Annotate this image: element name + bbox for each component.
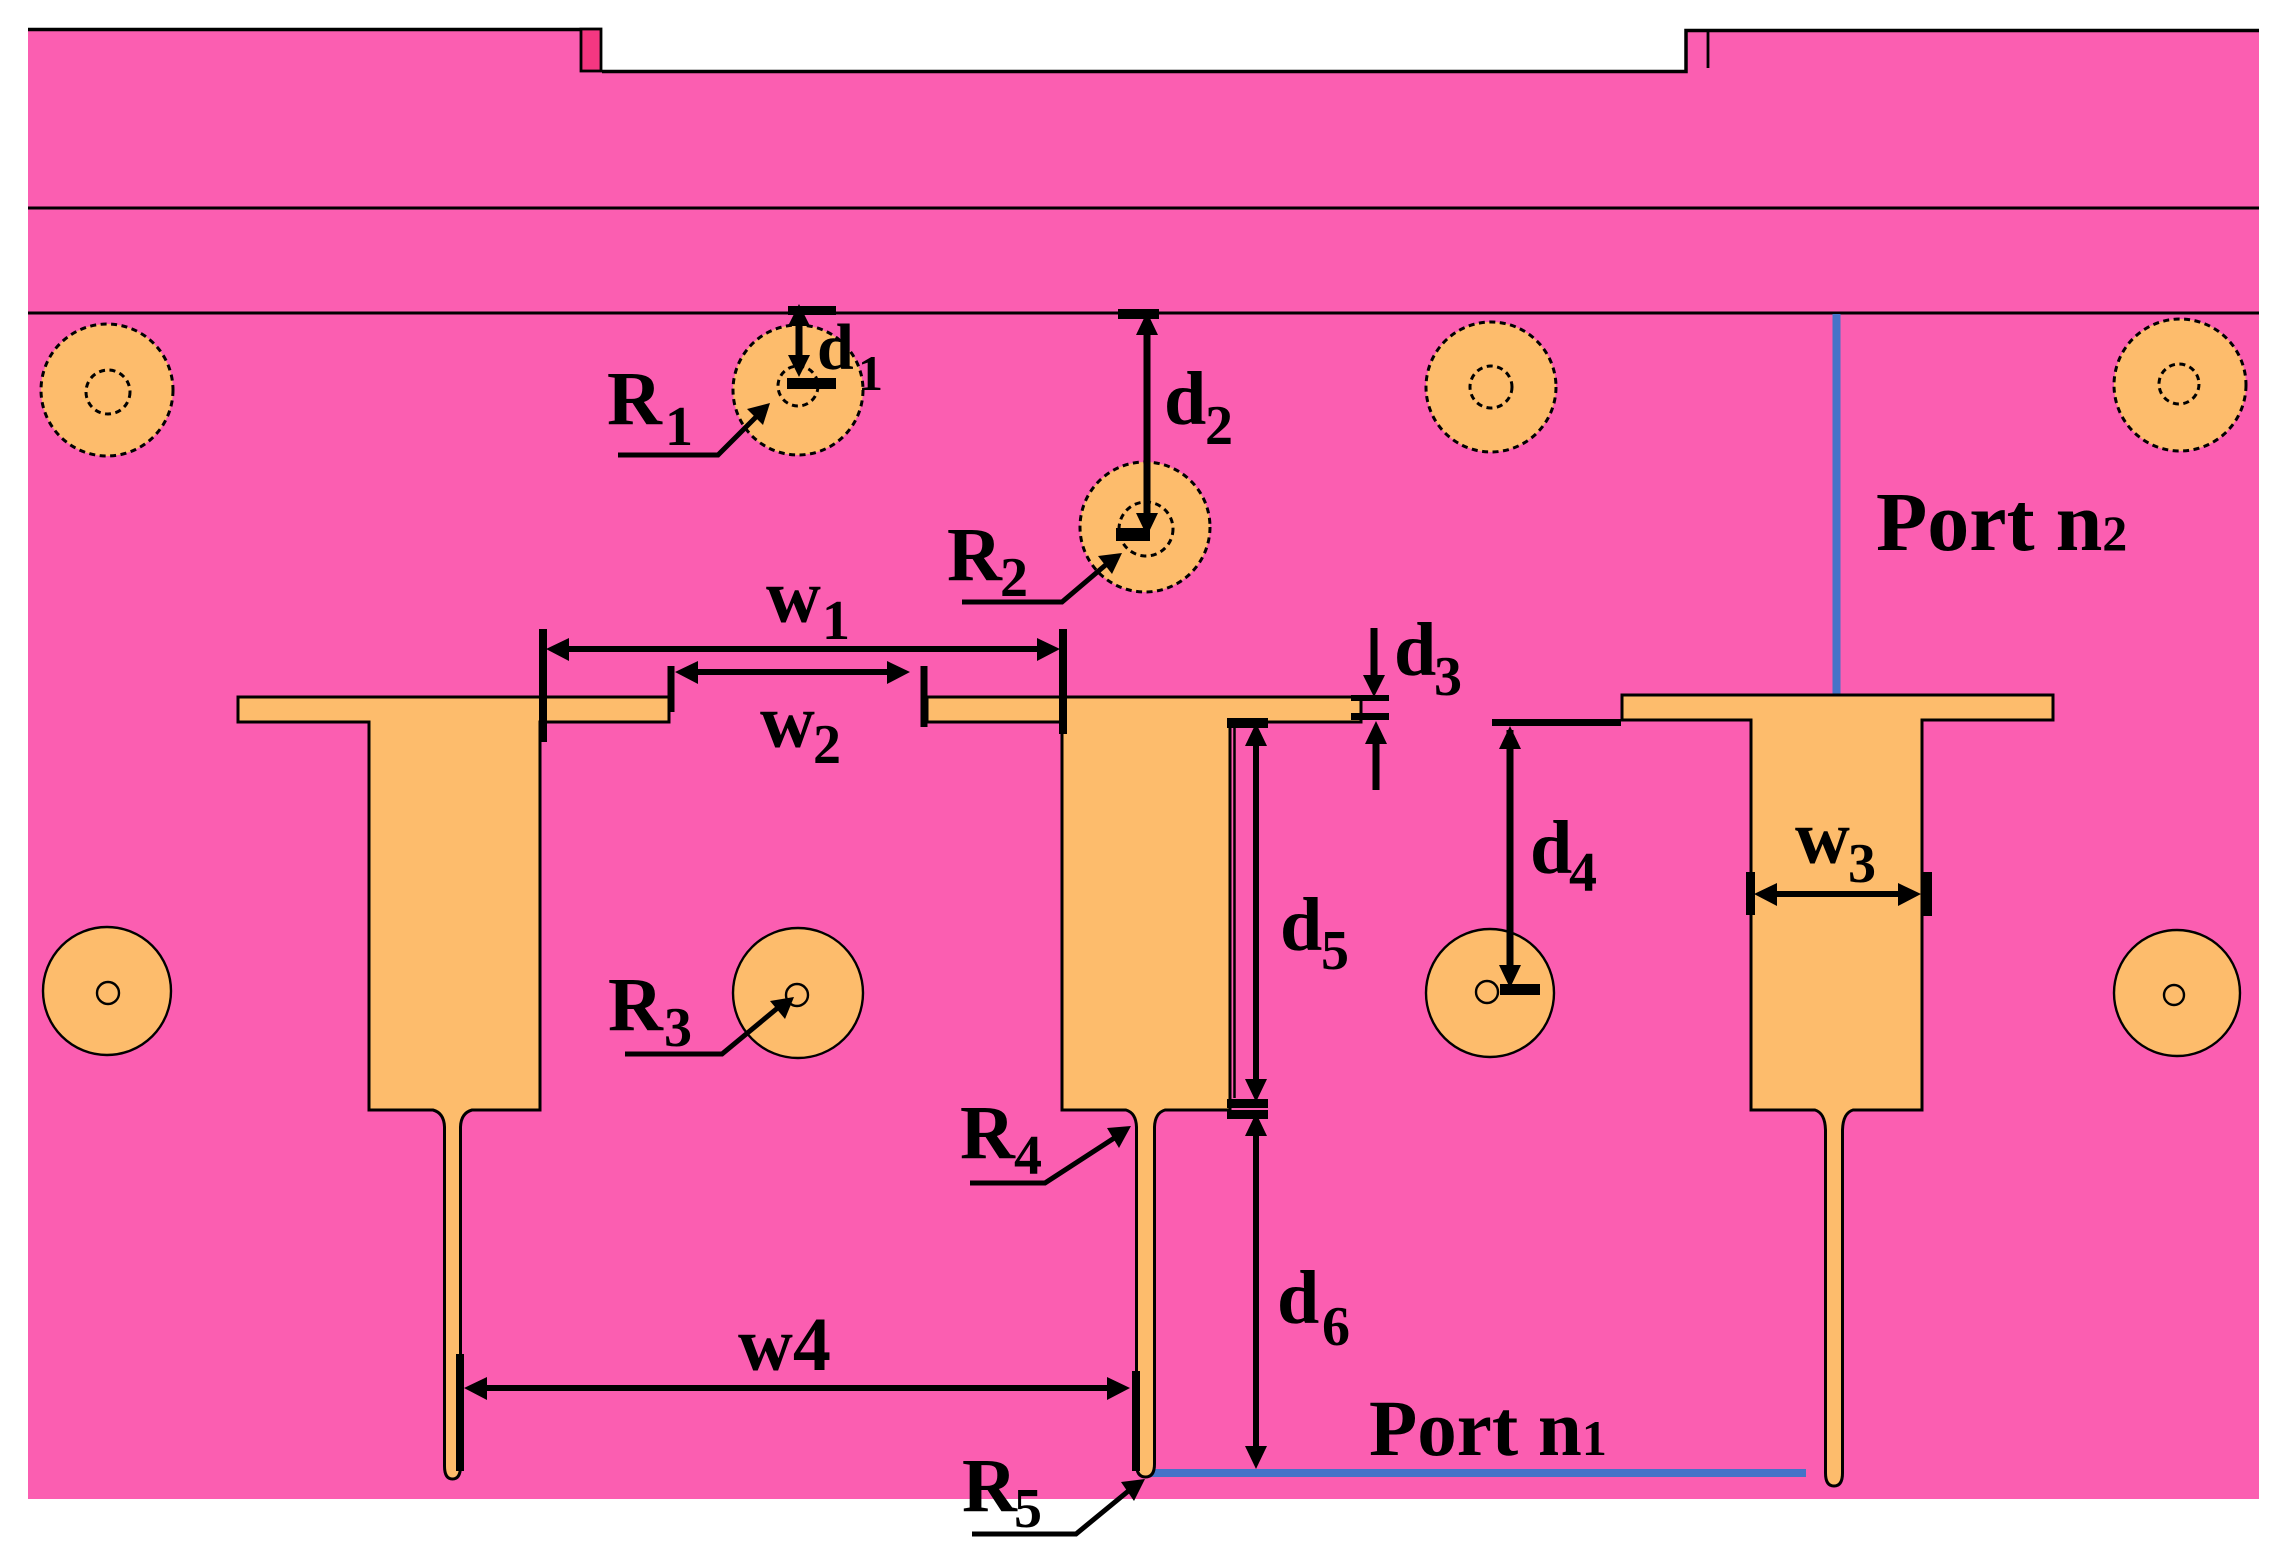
svg-text:3: 3 xyxy=(1434,646,1462,708)
dimension d5 xyxy=(1227,718,1349,1108)
svg-text:R: R xyxy=(947,513,1003,597)
svg-text:d: d xyxy=(1277,1256,1319,1340)
svg-text:2: 2 xyxy=(1205,395,1233,457)
svg-text:Port n1: Port n1 xyxy=(1369,1386,1607,1473)
step notch deep pink xyxy=(581,29,601,71)
svg-text:d: d xyxy=(1280,883,1322,967)
dimension d2 xyxy=(1116,309,1233,541)
dimension d4 xyxy=(1492,719,1621,995)
label R1 with leader xyxy=(607,357,770,458)
Port n1 blue line xyxy=(1147,1469,1806,1477)
substrate band line lower xyxy=(28,312,2259,315)
dimension d3 xyxy=(1351,608,1462,790)
via R2 xyxy=(1080,462,1210,592)
dimension w1 xyxy=(539,555,1067,742)
svg-text:1: 1 xyxy=(822,590,850,652)
svg-text:4: 4 xyxy=(1569,842,1597,904)
label R2 with leader xyxy=(947,513,1122,609)
svg-text:1: 1 xyxy=(858,345,883,401)
dimension d6 xyxy=(1227,1110,1350,1469)
svg-text:5: 5 xyxy=(1321,920,1349,982)
label R3 with leader xyxy=(608,963,794,1059)
svg-text:R: R xyxy=(962,1444,1018,1528)
substrate top outline middle and right xyxy=(602,31,2259,72)
svg-text:5: 5 xyxy=(1014,1478,1042,1540)
svg-text:4: 4 xyxy=(1014,1125,1042,1187)
dimension w4 xyxy=(456,1303,1140,1471)
svg-text:R: R xyxy=(607,357,663,441)
svg-text:2: 2 xyxy=(813,714,841,776)
label R4 with leader xyxy=(960,1091,1131,1187)
svg-text:d: d xyxy=(817,311,854,384)
via R1 xyxy=(733,325,863,455)
step notch edge right xyxy=(1707,30,1710,68)
via d4 xyxy=(1426,929,1554,1057)
T3 probe (bar, column, stem) xyxy=(1622,695,2053,1486)
svg-text:d: d xyxy=(1164,357,1206,441)
substrate top outline left section xyxy=(28,28,580,32)
via mid-left xyxy=(43,927,171,1055)
T2 probe (bar, column, stem) xyxy=(927,697,1361,1477)
svg-text:3: 3 xyxy=(664,997,692,1059)
dimension w2 xyxy=(671,661,924,776)
dimension w3 xyxy=(1746,796,1932,916)
via top-right xyxy=(2114,319,2246,451)
svg-text:d: d xyxy=(1394,608,1436,692)
via R3 xyxy=(733,928,863,1058)
svg-text:w4: w4 xyxy=(738,1303,831,1387)
svg-text:R: R xyxy=(608,963,664,1047)
via mid-right xyxy=(2114,930,2240,1056)
via row1 third xyxy=(1426,322,1556,452)
svg-text:1: 1 xyxy=(665,396,693,458)
svg-text:w: w xyxy=(766,555,821,639)
svg-text:d: d xyxy=(1530,806,1572,890)
via top-left xyxy=(41,324,173,456)
svg-text:6: 6 xyxy=(1322,1296,1350,1358)
svg-text:w: w xyxy=(760,680,815,764)
T1 probe (bar, column, stem) xyxy=(238,697,669,1479)
Port n2 blue line xyxy=(1833,314,1841,694)
svg-text:Port n2: Port n2 xyxy=(1876,476,2127,569)
dimension d1 xyxy=(787,304,883,401)
label R5 with leader xyxy=(962,1444,1145,1540)
substrate band line upper xyxy=(28,207,2259,210)
svg-text:R: R xyxy=(960,1091,1016,1175)
svg-text:3: 3 xyxy=(1848,833,1876,895)
svg-text:w: w xyxy=(1795,796,1850,880)
